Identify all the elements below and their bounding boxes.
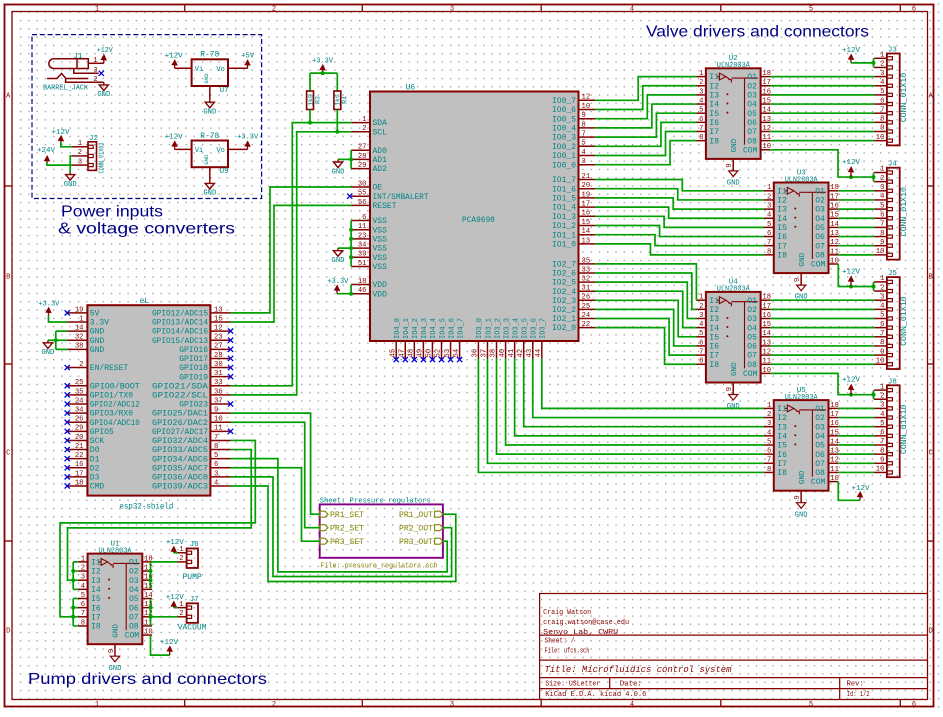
svg-text:10: 10: [762, 367, 771, 375]
svg-text:10: 10: [876, 466, 885, 474]
svg-text:VDD: VDD: [373, 281, 388, 290]
svg-text:+3.3V: +3.3V: [38, 301, 60, 309]
sheet input pins PR1_SET PR2_SET PR3_SET: [320, 511, 364, 547]
svg-text:GND: GND: [90, 346, 105, 355]
svg-text:26: 26: [75, 416, 84, 424]
svg-text:GPIO36/ADC0: GPIO36/ADC0: [152, 473, 208, 482]
power +3.3V at U9 output: [245, 141, 250, 149]
svg-text:SCL: SCL: [373, 128, 388, 137]
svg-text:IO3_4: IO3_4: [512, 318, 520, 339]
svg-text:GND: GND: [113, 624, 121, 638]
U1 output pins O1-O8: [129, 555, 153, 631]
svg-text:11: 11: [214, 425, 223, 433]
svg-text:31: 31: [214, 370, 223, 378]
U3 COM pin 10: [799, 252, 839, 269]
svg-text:9: 9: [794, 278, 802, 282]
svg-text:9: 9: [214, 407, 218, 415]
svg-text:IO3_7: IO3_7: [540, 318, 548, 339]
svg-text:4: 4: [699, 321, 703, 329]
svg-text:+3.3V: +3.3V: [327, 278, 349, 286]
svg-text:14: 14: [75, 325, 84, 333]
wires U6 IO2 bank to U4 inputs: [595, 264, 696, 364]
svg-text:IO1_5: IO1_5: [552, 195, 576, 204]
wire net PR2_SET from ESP32 GPIO26: [231, 422, 320, 527]
svg-text:VSS: VSS: [373, 217, 388, 226]
svg-text:R3: R3: [314, 96, 321, 104]
svg-text:44: 44: [535, 349, 543, 358]
U2 output pins O1-O8: [747, 70, 771, 146]
svg-text:O7: O7: [747, 352, 757, 361]
svg-text:B: B: [6, 274, 10, 282]
svg-text:10: 10: [762, 143, 771, 151]
wire R4 to SCL net: [336, 110, 338, 132]
svg-text:+12V: +12V: [842, 269, 861, 277]
svg-text:12: 12: [582, 94, 591, 102]
svg-text:49: 49: [417, 349, 425, 358]
regulator U9 R-78: [175, 132, 248, 181]
svg-text:I6: I6: [91, 604, 101, 613]
no-connect X at J1 pin 3: [99, 71, 104, 76]
svg-text:16: 16: [762, 312, 771, 320]
svg-text:Vi: Vi: [195, 66, 203, 74]
svg-text:1: 1: [767, 184, 771, 192]
driver U1 ULN2803A: [88, 540, 143, 644]
svg-text:GND: GND: [332, 168, 345, 176]
wire net SCL from U6 to ESP32 GPIO22: [231, 132, 352, 395]
svg-text:GPIO16: GPIO16: [179, 346, 208, 355]
svg-text:VSS: VSS: [373, 226, 388, 235]
svg-text:GND: GND: [203, 190, 216, 198]
svg-text:7: 7: [880, 330, 884, 338]
svg-text:SCK: SCK: [90, 437, 105, 446]
power +12V at U7 input: [172, 60, 177, 68]
svg-text:R4: R4: [342, 96, 349, 104]
svg-text:15: 15: [830, 429, 839, 437]
svg-text:7: 7: [880, 438, 884, 446]
U6 bottom pins IO3 with numbers: [472, 318, 548, 359]
svg-text:16: 16: [830, 420, 839, 428]
svg-text:2: 2: [179, 555, 183, 563]
svg-text:9: 9: [880, 457, 884, 465]
svg-text:Craig Watson: Craig Watson: [543, 609, 591, 617]
svg-text:3: 3: [81, 574, 85, 582]
svg-text:11: 11: [358, 223, 367, 231]
svg-text:O3: O3: [815, 423, 825, 432]
svg-text:8: 8: [699, 358, 703, 366]
svg-text:18: 18: [762, 70, 771, 78]
power +12V at J5: [848, 276, 853, 286]
svg-text:File: ufcs.sch: File: ufcs.sch: [545, 648, 590, 656]
module eL esp32-shield: [87, 297, 210, 511]
svg-text:3: 3: [699, 88, 703, 96]
wire net RESET from U6 to ESP32 GPIO13: [231, 205, 352, 322]
svg-text:8: 8: [767, 248, 771, 256]
svg-text:38: 38: [75, 343, 84, 351]
svg-text:GND: GND: [727, 180, 740, 188]
svg-text:13: 13: [762, 339, 771, 347]
svg-text:4: 4: [767, 212, 771, 220]
no-connect X marks on U6 IO4 pins: [394, 357, 463, 362]
svg-text:VDD: VDD: [373, 290, 388, 299]
svg-text:2: 2: [79, 361, 83, 369]
wire net PR2_OUT to ESP32 GPIO36: [231, 477, 452, 577]
svg-text:IO2_4: IO2_4: [552, 288, 576, 297]
svg-text:& voltage converters: & voltage converters: [58, 221, 235, 238]
svg-text:3: 3: [699, 312, 703, 320]
wire ESP32 3.3V pin to +3.3V: [49, 316, 68, 322]
svg-text:B: B: [929, 274, 933, 282]
svg-text:O3: O3: [747, 315, 757, 324]
svg-text:17: 17: [582, 201, 591, 209]
svg-text:23: 23: [358, 232, 367, 240]
svg-text:GND: GND: [795, 511, 808, 519]
svg-text:PR3_SET: PR3_SET: [330, 538, 364, 547]
svg-text:14: 14: [762, 330, 771, 338]
svg-text:20: 20: [75, 434, 84, 442]
svg-text:4: 4: [880, 303, 884, 311]
svg-text:IO2_6: IO2_6: [552, 270, 576, 279]
svg-text:35: 35: [75, 388, 84, 396]
svg-text:I8: I8: [777, 469, 787, 478]
svg-text:Senyo Lab, CWRU: Senyo Lab, CWRU: [543, 629, 618, 637]
wire U6 AD pins to ground: [338, 150, 351, 168]
svg-text:9: 9: [726, 163, 734, 167]
svg-text:I6: I6: [777, 233, 787, 242]
wire J2 pin 2 to GND: [70, 156, 72, 172]
svg-text:O2: O2: [815, 414, 825, 423]
svg-text:VSS: VSS: [373, 245, 388, 254]
wire bus tying U1 outputs O1-O4 to PUMP: [151, 562, 178, 589]
ground at ESP32: [43, 340, 52, 348]
svg-text:29: 29: [358, 162, 367, 170]
svg-text:I6: I6: [777, 451, 787, 460]
svg-text:21: 21: [75, 443, 84, 451]
svg-text:28: 28: [214, 352, 223, 360]
junctions at J4 +12V: [849, 175, 876, 179]
svg-text:IO1_6: IO1_6: [552, 185, 576, 194]
svg-text:5: 5: [767, 221, 771, 229]
svg-text:IO0_1: IO0_1: [552, 152, 576, 161]
U6 bottom pins IO4 with numbers (unconnected): [389, 318, 465, 359]
svg-text:5: 5: [699, 107, 703, 115]
svg-text:I1: I1: [777, 405, 787, 414]
svg-text:10: 10: [144, 629, 153, 637]
svg-text:12: 12: [762, 125, 771, 133]
connector J3 CONN_01X10: [874, 47, 909, 146]
svg-text:EN/RESET: EN/RESET: [90, 364, 129, 373]
svg-text:6: 6: [912, 6, 916, 14]
wire bus tying U1 outputs O5-O8 to VACUUM: [151, 599, 178, 626]
svg-text:IO4_0: IO4_0: [394, 318, 402, 339]
junctions on VSS bus: [349, 228, 353, 260]
svg-text:I4: I4: [91, 586, 101, 595]
ground at U4: [729, 395, 738, 401]
svg-text:O5: O5: [815, 224, 825, 233]
wire R3 to SDA net: [309, 110, 311, 123]
svg-text:3.3V: 3.3V: [90, 319, 109, 328]
svg-text:50: 50: [426, 349, 434, 358]
svg-text:O7: O7: [815, 460, 825, 469]
wire U1 COM to +12V: [151, 635, 170, 655]
svg-text:IO3_3: IO3_3: [503, 318, 511, 339]
svg-text:1: 1: [95, 6, 99, 14]
svg-text:Power inputs: Power inputs: [61, 204, 163, 221]
svg-text:23: 23: [214, 334, 223, 342]
svg-text:I8: I8: [777, 251, 787, 260]
no-connect X marks on ESP32 left pins: [65, 310, 70, 488]
svg-text:GND: GND: [799, 470, 807, 484]
svg-text:D2: D2: [90, 464, 100, 473]
svg-text:17: 17: [830, 193, 839, 201]
svg-text:7: 7: [582, 131, 586, 139]
ESP32 left pins with numbers and names: [67, 306, 140, 491]
ground at U3: [797, 285, 806, 291]
svg-text:47: 47: [398, 349, 406, 358]
svg-text:24: 24: [75, 397, 84, 405]
svg-text:O4: O4: [815, 215, 825, 224]
svg-text:10: 10: [214, 416, 223, 424]
svg-text:IO3_2: IO3_2: [494, 318, 502, 339]
svg-text:17: 17: [762, 303, 771, 311]
svg-text:6: 6: [699, 339, 703, 347]
svg-text:I3: I3: [777, 206, 787, 215]
svg-text:O4: O4: [815, 432, 825, 441]
power +12V at J3 pins 1-2: [848, 54, 853, 63]
svg-text:36: 36: [214, 388, 223, 396]
svg-text:I2: I2: [91, 568, 101, 577]
J1 pin 2 wire to GND: [66, 79, 104, 83]
svg-text:GPIO15/ADC13: GPIO15/ADC13: [152, 337, 208, 346]
power +12V at U1 COM: [167, 646, 172, 655]
svg-text:PR3_OUT: PR3_OUT: [399, 538, 433, 547]
svg-text:I7: I7: [777, 460, 787, 469]
svg-text:IO1_0: IO1_0: [552, 241, 576, 250]
svg-text:7: 7: [767, 239, 771, 247]
ESP32 right pins with numbers and names: [152, 306, 231, 491]
svg-text:7: 7: [880, 221, 884, 229]
svg-text:15: 15: [830, 212, 839, 220]
sheet: Pressure regulators (pressure_regulators.sch): [320, 498, 443, 571]
connector J8 CONN_01X10: [874, 378, 909, 477]
svg-text:COM: COM: [743, 370, 758, 379]
junction at VDD: [349, 292, 353, 296]
svg-text:GND: GND: [90, 337, 105, 346]
svg-text:19: 19: [75, 306, 84, 314]
svg-text:IO4_2: IO4_2: [412, 318, 420, 339]
svg-text:D0: D0: [90, 446, 100, 455]
svg-text:AD1: AD1: [373, 156, 388, 165]
svg-text:8: 8: [767, 466, 771, 474]
svg-text:PUMP: PUMP: [182, 573, 201, 582]
svg-text:GPIO22/SCL: GPIO22/SCL: [152, 391, 208, 400]
connector J1 barrel jack: [43, 53, 89, 93]
svg-text:C: C: [6, 450, 10, 458]
svg-text:2: 2: [880, 284, 884, 292]
svg-text:O1: O1: [129, 559, 139, 568]
power +12V at J2: [58, 136, 63, 142]
svg-text:CONN_01X03: CONN_01X03: [98, 142, 106, 173]
svg-text:O3: O3: [129, 577, 139, 586]
svg-text:GND: GND: [731, 362, 739, 376]
svg-text:BARREL_JACK: BARREL_JACK: [43, 84, 89, 92]
svg-text:3: 3: [767, 203, 771, 211]
svg-text:O5: O5: [747, 333, 757, 342]
svg-text:O6: O6: [815, 233, 825, 242]
power +12V at J4: [848, 167, 853, 177]
svg-text:I3: I3: [709, 92, 719, 101]
svg-text:28: 28: [358, 153, 367, 161]
svg-text:10: 10: [876, 248, 885, 256]
svg-text:54: 54: [453, 349, 461, 358]
svg-text:2: 2: [81, 564, 85, 572]
svg-text:9: 9: [880, 239, 884, 247]
svg-text:GND: GND: [41, 349, 54, 357]
svg-text:4: 4: [582, 149, 586, 157]
svg-text:AD2: AD2: [373, 165, 388, 174]
svg-text:IO2_3: IO2_3: [552, 297, 576, 306]
svg-text:Pump drivers and connectors: Pump drivers and connectors: [28, 671, 267, 688]
svg-text:4: 4: [699, 97, 703, 105]
junctions on U1 input bus I1-I4: [71, 569, 75, 582]
U4 output pins O1-O8: [747, 294, 771, 370]
svg-text:6: 6: [912, 701, 916, 709]
junctions on U1 output bus O5-O8: [149, 606, 153, 619]
svg-text:31: 31: [582, 285, 591, 293]
svg-text:2: 2: [699, 303, 703, 311]
svg-text:I8: I8: [709, 137, 719, 146]
svg-text:O1: O1: [747, 297, 757, 306]
svg-text:I5: I5: [709, 110, 719, 119]
svg-text:VACUUM: VACUUM: [178, 624, 207, 633]
svg-text:PR1_SET: PR1_SET: [330, 511, 364, 520]
svg-text:4: 4: [880, 79, 884, 87]
svg-text:3: 3: [582, 158, 586, 166]
svg-text:5: 5: [699, 330, 703, 338]
svg-text:5: 5: [81, 592, 85, 600]
power +3.3V at pullups: [320, 65, 325, 73]
wire net OE from U6 to ESP32 GPIO12: [231, 187, 352, 313]
svg-text:4: 4: [880, 411, 884, 419]
driver U3 ULN2803A: [774, 169, 829, 273]
svg-text:GPIO19: GPIO19: [179, 373, 208, 382]
svg-text:+12V: +12V: [160, 639, 179, 647]
U3 GND pin 9: [794, 273, 802, 285]
svg-text:Vo: Vo: [216, 147, 224, 155]
svg-text:34: 34: [75, 407, 84, 415]
svg-text:9: 9: [794, 495, 802, 499]
junction R3-SDA: [308, 121, 312, 125]
svg-text:D1: D1: [90, 455, 100, 464]
svg-text:19: 19: [582, 191, 591, 199]
svg-text:GPIO39/ADC3: GPIO39/ADC3: [152, 483, 208, 492]
svg-text:10: 10: [582, 103, 591, 111]
svg-text:1: 1: [880, 383, 884, 391]
connector J4 CONN_01X10: [874, 161, 909, 260]
svg-text:IO0_5: IO0_5: [552, 115, 576, 124]
svg-text:11: 11: [762, 134, 771, 142]
svg-text:29: 29: [75, 425, 84, 433]
svg-text:15: 15: [762, 321, 771, 329]
svg-text:9: 9: [880, 348, 884, 356]
svg-text:2: 2: [699, 79, 703, 87]
svg-text:+24V: +24V: [37, 147, 56, 155]
svg-text:46: 46: [358, 287, 367, 295]
driver U5 ULN2803A: [774, 387, 829, 491]
svg-text:I2: I2: [709, 306, 719, 315]
svg-text:51: 51: [358, 260, 367, 268]
svg-text:IO0_7: IO0_7: [552, 97, 576, 106]
svg-text:18: 18: [830, 402, 839, 410]
svg-text:I7: I7: [709, 352, 719, 361]
svg-text:33: 33: [214, 379, 223, 387]
svg-text:O6: O6: [815, 451, 825, 460]
svg-text:5: 5: [767, 438, 771, 446]
svg-text:24: 24: [582, 312, 591, 320]
wire +3.3V rail to R3 and R4: [310, 73, 337, 91]
svg-text:18: 18: [75, 479, 84, 487]
svg-text:GPIO18: GPIO18: [179, 364, 208, 373]
U5 GND pin 9: [794, 491, 802, 503]
power +12V at J8: [848, 385, 853, 395]
svg-text:8: 8: [81, 619, 85, 627]
U1 COM pin 10: [113, 624, 153, 641]
svg-text:IO3_6: IO3_6: [531, 318, 539, 339]
svg-text:7: 7: [880, 106, 884, 114]
svg-text:I1: I1: [91, 559, 101, 568]
svg-text:3: 3: [450, 6, 454, 14]
wires U4 outputs O1-O8 to J5 pins 3-10: [770, 300, 874, 364]
svg-text:VSS: VSS: [373, 263, 388, 272]
svg-text:3: 3: [78, 158, 82, 166]
U2 input pins I1-I8: [696, 70, 719, 146]
ground at J2: [66, 172, 75, 180]
svg-text:I6: I6: [709, 343, 719, 352]
svg-text:13: 13: [582, 237, 591, 245]
U2 GND pin 9: [726, 159, 734, 171]
svg-text:O7: O7: [129, 613, 139, 622]
svg-text:GND: GND: [203, 154, 210, 165]
svg-text:5: 5: [582, 140, 586, 148]
ground at J1: [99, 82, 108, 90]
svg-text:16: 16: [582, 210, 591, 218]
junction at +3.3V rail: [321, 71, 325, 75]
svg-text:+12V: +12V: [166, 539, 185, 547]
svg-text:22: 22: [75, 452, 84, 460]
svg-text:I4: I4: [777, 432, 787, 441]
svg-text:+3.3V: +3.3V: [237, 134, 259, 142]
svg-text:9: 9: [726, 387, 734, 391]
svg-text:27: 27: [214, 343, 223, 351]
svg-text:Valve drivers and connectors: Valve drivers and connectors: [646, 24, 869, 41]
connector J5 CONN_01X10: [874, 270, 909, 369]
svg-text:O3: O3: [815, 206, 825, 215]
svg-text:IO4_3: IO4_3: [421, 318, 429, 339]
no-connect X marks on ESP32 right pins: [228, 329, 233, 434]
svg-text:IO1_2: IO1_2: [552, 222, 576, 231]
svg-text:4: 4: [880, 193, 884, 201]
svg-text:1: 1: [78, 140, 82, 148]
svg-text:16: 16: [762, 88, 771, 96]
U2 COM pin 10: [731, 138, 771, 155]
svg-text:IO4_4: IO4_4: [430, 318, 438, 339]
svg-text:O1: O1: [815, 187, 825, 196]
svg-text:3: 3: [450, 701, 454, 709]
svg-text:12: 12: [214, 325, 223, 333]
svg-text:CONN_01X10: CONN_01X10: [900, 187, 909, 237]
svg-text:1: 1: [95, 701, 99, 709]
svg-text:18: 18: [762, 294, 771, 302]
U1 GND pin 9: [108, 644, 116, 656]
